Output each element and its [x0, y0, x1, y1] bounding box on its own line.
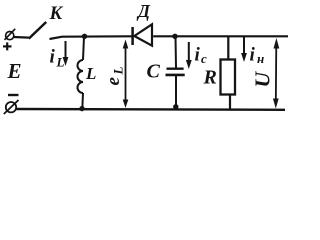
- diode D cathode bar: [131, 27, 134, 45]
- resistor R leads: [228, 36, 230, 109]
- top wire (diode to right edge): [153, 35, 288, 37]
- svg-text:i: i: [50, 47, 56, 68]
- minus sign: [8, 94, 19, 96]
- resistor R body: [221, 60, 236, 95]
- svg-text:i: i: [195, 45, 201, 66]
- svg-text:R: R: [203, 67, 217, 89]
- emf arrow eL (double headed): [123, 40, 129, 109]
- current arrow ic: [186, 42, 192, 69]
- top wire (switch to diode): [50, 36, 132, 39]
- svg-text:e: e: [103, 77, 124, 86]
- terminal bottom-left (-): [4, 100, 19, 114]
- current arrow iH: [241, 37, 247, 62]
- label U (rotated): [251, 71, 275, 88]
- svg-text:K: K: [49, 3, 64, 24]
- switch K blade: [29, 22, 46, 39]
- svg-text:c: c: [201, 51, 207, 66]
- inductor L: [78, 37, 84, 110]
- current arrow iL: [63, 41, 69, 66]
- bottom wire: [17, 108, 286, 111]
- svg-text:i: i: [250, 45, 256, 66]
- svg-text:E: E: [7, 59, 22, 83]
- svg-text:L: L: [85, 64, 96, 83]
- node: junction dot top of L: [82, 34, 87, 39]
- node: junction dot bottom of C: [173, 104, 178, 109]
- svg-text:Д: Д: [136, 1, 151, 21]
- label eL (rotated): [103, 67, 126, 86]
- plus sign: [3, 42, 12, 50]
- svg-text:L: L: [56, 55, 65, 70]
- svg-text:н: н: [257, 51, 264, 66]
- capacitor C: [166, 36, 185, 108]
- svg-text:L: L: [111, 67, 126, 76]
- diode D triangle: [134, 24, 152, 45]
- voltage arrow U (double headed): [273, 38, 279, 109]
- svg-text:C: C: [147, 61, 161, 83]
- svg-text:U: U: [251, 71, 275, 88]
- node: junction dot top of C: [172, 34, 177, 39]
- wire stub from + terminal: [14, 36, 29, 39]
- terminal top-left (+): [5, 29, 16, 40]
- node: junction dot bottom of L: [79, 106, 84, 111]
